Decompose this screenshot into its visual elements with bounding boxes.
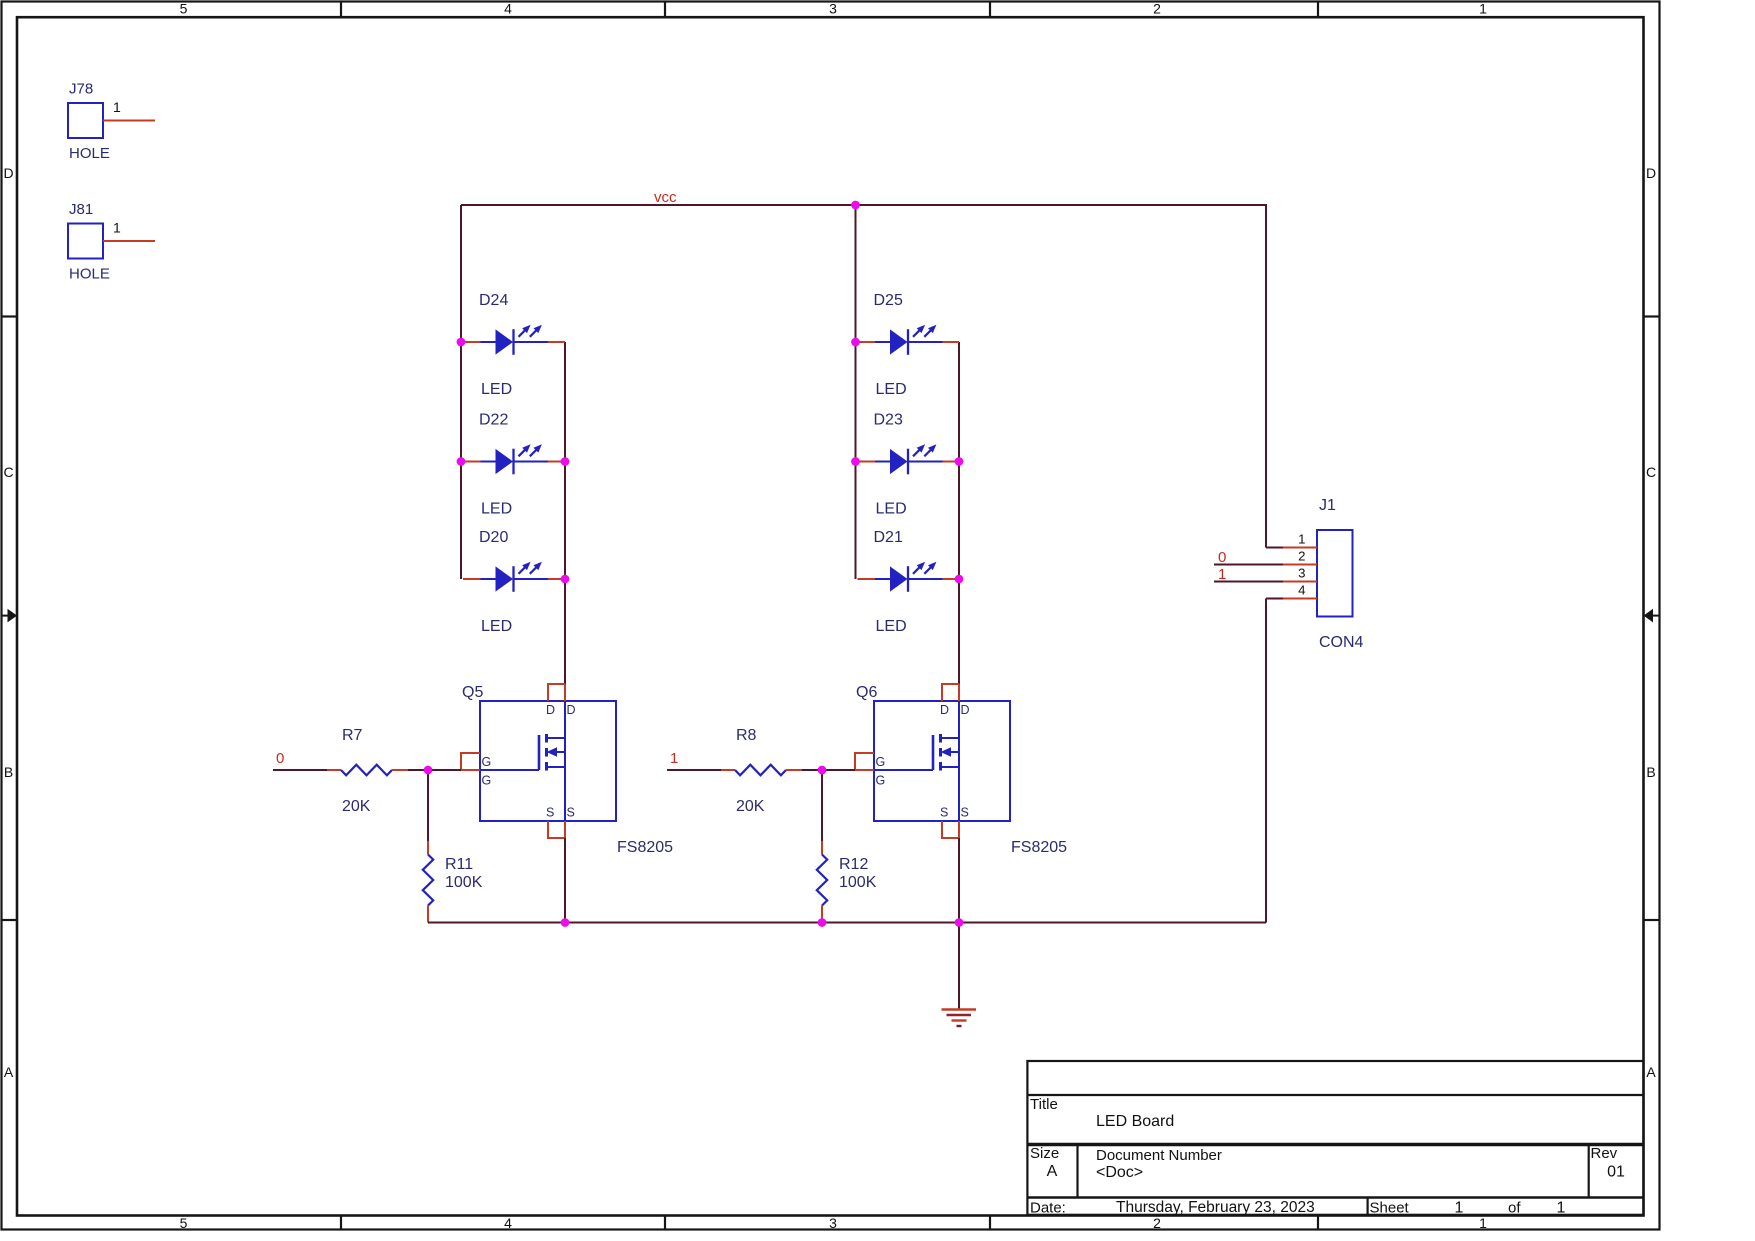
- svg-text:1: 1: [1479, 1215, 1487, 1231]
- resistor R12 100K: [817, 770, 877, 923]
- node VCC junction: [851, 201, 860, 210]
- svg-text:4: 4: [504, 0, 512, 16]
- svg-text:J1: J1: [1319, 497, 1336, 514]
- svg-text:S: S: [961, 806, 969, 820]
- svg-text:2: 2: [1153, 0, 1161, 16]
- svg-text:Sheet: Sheet: [1370, 1200, 1410, 1217]
- LED D25: [858, 292, 960, 398]
- wire net 0 stub to J1 pin2: [1214, 564, 1283, 566]
- resistor R8 20K: [721, 727, 802, 815]
- svg-text:5: 5: [180, 0, 188, 16]
- svg-text:FS8205: FS8205: [1011, 839, 1067, 856]
- node R7/R11 gate junction: [424, 766, 433, 775]
- svg-text:Title: Title: [1030, 1096, 1058, 1113]
- wire net 1 stub to J1 pin3: [1214, 581, 1283, 583]
- transistor Q6 (dual MOSFET FS8205): [855, 684, 1067, 856]
- svg-text:0: 0: [276, 750, 284, 767]
- svg-text:D: D: [3, 165, 13, 181]
- J78 pin 1: [103, 120, 155, 122]
- svg-text:100K: 100K: [839, 874, 877, 891]
- svg-text:1: 1: [113, 99, 121, 115]
- Q5 pin S hook: [548, 821, 565, 838]
- svg-text:1: 1: [670, 750, 678, 767]
- svg-text:Size: Size: [1030, 1145, 1059, 1162]
- svg-text:J81: J81: [69, 201, 93, 218]
- svg-text:LED: LED: [876, 501, 907, 518]
- svg-text:Document Number: Document Number: [1096, 1147, 1222, 1164]
- J1 pin 2: [1283, 564, 1317, 566]
- hole connector J81: [68, 224, 103, 259]
- svg-text:vcc: vcc: [654, 189, 677, 206]
- wire right group anode rail: [855, 205, 857, 579]
- svg-text:LED: LED: [481, 618, 512, 635]
- Q6 pin D hook: [942, 684, 959, 701]
- wire Q5 source down: [564, 838, 566, 923]
- Q5 pin D hook: [548, 684, 565, 701]
- svg-text:4: 4: [1298, 583, 1305, 598]
- svg-text:5: 5: [180, 1215, 188, 1231]
- svg-text:3: 3: [829, 1215, 837, 1231]
- sheet mid arrow left: [2, 615, 9, 617]
- svg-text:D20: D20: [479, 529, 508, 546]
- svg-text:Rev: Rev: [1591, 1145, 1618, 1162]
- svg-text:20K: 20K: [342, 798, 371, 815]
- svg-text:2: 2: [1298, 549, 1305, 564]
- svg-text:LED: LED: [876, 618, 907, 635]
- svg-text:3: 3: [829, 0, 837, 16]
- J81 pin 1: [103, 240, 155, 242]
- Q6 pin S hook: [942, 821, 959, 838]
- LED D21: [858, 529, 960, 635]
- svg-text:FS8205: FS8205: [617, 839, 673, 856]
- svg-text:0: 0: [1218, 549, 1226, 566]
- svg-text:C: C: [3, 464, 13, 480]
- wire net 1 to R8: [667, 769, 721, 771]
- wire right group cathode rail: [958, 342, 960, 684]
- Q5 pin G hook: [461, 753, 480, 770]
- svg-text:LED: LED: [481, 381, 512, 398]
- svg-text:A: A: [1047, 1163, 1058, 1180]
- J1 pin 3: [1283, 581, 1317, 583]
- svg-text:J78: J78: [69, 81, 93, 98]
- node junctions LED rails: [457, 338, 466, 347]
- column zone ticks bottom: [340, 1215, 342, 1230]
- svg-text:C: C: [1646, 464, 1656, 480]
- svg-text:D23: D23: [874, 412, 903, 429]
- wire Q6 source down: [958, 838, 960, 923]
- VCC net wire: [461, 204, 1266, 206]
- LED D22: [463, 412, 565, 518]
- svg-text:Q6: Q6: [856, 684, 877, 701]
- wire ground rail to J1 pin4: [1266, 598, 1283, 600]
- svg-text:20K: 20K: [736, 798, 765, 815]
- wire R7 to gate node: [408, 769, 461, 771]
- svg-text:R8: R8: [736, 727, 757, 744]
- svg-text:D24: D24: [479, 292, 508, 309]
- svg-text:HOLE: HOLE: [69, 145, 110, 162]
- wire left group cathode rail: [564, 342, 566, 684]
- svg-text:HOLE: HOLE: [69, 266, 110, 283]
- transistor Q5 (dual MOSFET FS8205): [461, 684, 673, 856]
- svg-text:D25: D25: [874, 292, 903, 309]
- svg-text:Date:: Date:: [1030, 1200, 1066, 1217]
- svg-text:B: B: [4, 764, 13, 780]
- svg-text:G: G: [482, 755, 492, 769]
- svg-text:D: D: [961, 703, 970, 717]
- svg-text:A: A: [1646, 1064, 1656, 1080]
- svg-text:R12: R12: [839, 856, 868, 873]
- svg-text:LED: LED: [876, 381, 907, 398]
- svg-text:4: 4: [504, 1215, 512, 1231]
- row zone ticks left: [2, 315, 18, 317]
- svg-text:D: D: [567, 703, 576, 717]
- svg-text:of: of: [1508, 1200, 1521, 1217]
- svg-text:G: G: [876, 774, 886, 788]
- ground symbol: [942, 923, 977, 1027]
- svg-text:B: B: [1646, 764, 1655, 780]
- wire R8 to gate node: [802, 769, 855, 771]
- junction dots (drawn last, on top of wires): [851, 201, 860, 210]
- svg-text:S: S: [567, 806, 575, 820]
- svg-text:1: 1: [113, 220, 121, 236]
- svg-text:D: D: [1646, 165, 1656, 181]
- wire left group anode rail: [460, 205, 462, 579]
- resistor R7 20K: [327, 727, 408, 815]
- J1 pin 4: [1283, 598, 1317, 600]
- svg-text:S: S: [940, 806, 948, 820]
- svg-text:01: 01: [1607, 1164, 1625, 1181]
- svg-text:CON4: CON4: [1319, 634, 1364, 651]
- wire net 0 to R7: [273, 769, 327, 771]
- svg-text:1: 1: [1298, 532, 1305, 547]
- svg-text:1: 1: [1455, 1200, 1464, 1217]
- svg-text:1: 1: [1557, 1200, 1566, 1217]
- resistor R11 100K: [423, 770, 483, 923]
- svg-text:D21: D21: [874, 529, 903, 546]
- svg-text:3: 3: [1298, 566, 1305, 581]
- LED D20: [463, 529, 565, 635]
- column zone ticks top: [340, 2, 342, 18]
- LED D23: [858, 412, 960, 518]
- svg-text:D: D: [546, 703, 555, 717]
- hole connector J78: [68, 103, 103, 138]
- svg-text:LED: LED: [481, 501, 512, 518]
- J1 pin 1: [1283, 547, 1317, 549]
- row zone ticks right: [1644, 315, 1660, 317]
- svg-text:A: A: [4, 1064, 14, 1080]
- svg-text:D: D: [940, 703, 949, 717]
- wire source/ground rail: [428, 922, 1266, 924]
- title block frame: [1027, 1061, 1643, 1215]
- svg-text:S: S: [546, 806, 554, 820]
- svg-text:LED Board: LED Board: [1096, 1113, 1174, 1130]
- svg-text:100K: 100K: [445, 874, 483, 891]
- svg-text:2: 2: [1153, 1215, 1161, 1231]
- wire VCC to J1 pin1: [1265, 204, 1267, 548]
- svg-text:D22: D22: [479, 412, 508, 429]
- Q6 pin G hook: [855, 753, 874, 770]
- sheet mid arrow right: [1653, 615, 1660, 617]
- svg-text:1: 1: [1479, 0, 1487, 16]
- connector J1 CON4: [1317, 497, 1364, 651]
- svg-text:G: G: [876, 755, 886, 769]
- svg-text:<Doc>: <Doc>: [1096, 1164, 1143, 1181]
- LED D24: [463, 292, 565, 398]
- node R8/R12 gate junction: [818, 766, 827, 775]
- svg-text:G: G: [482, 774, 492, 788]
- svg-text:R11: R11: [445, 856, 473, 873]
- svg-text:1: 1: [1218, 566, 1226, 583]
- svg-text:Q5: Q5: [462, 684, 483, 701]
- svg-text:R7: R7: [342, 727, 363, 744]
- svg-text:Thursday, February 23, 2023: Thursday, February 23, 2023: [1116, 1199, 1315, 1216]
